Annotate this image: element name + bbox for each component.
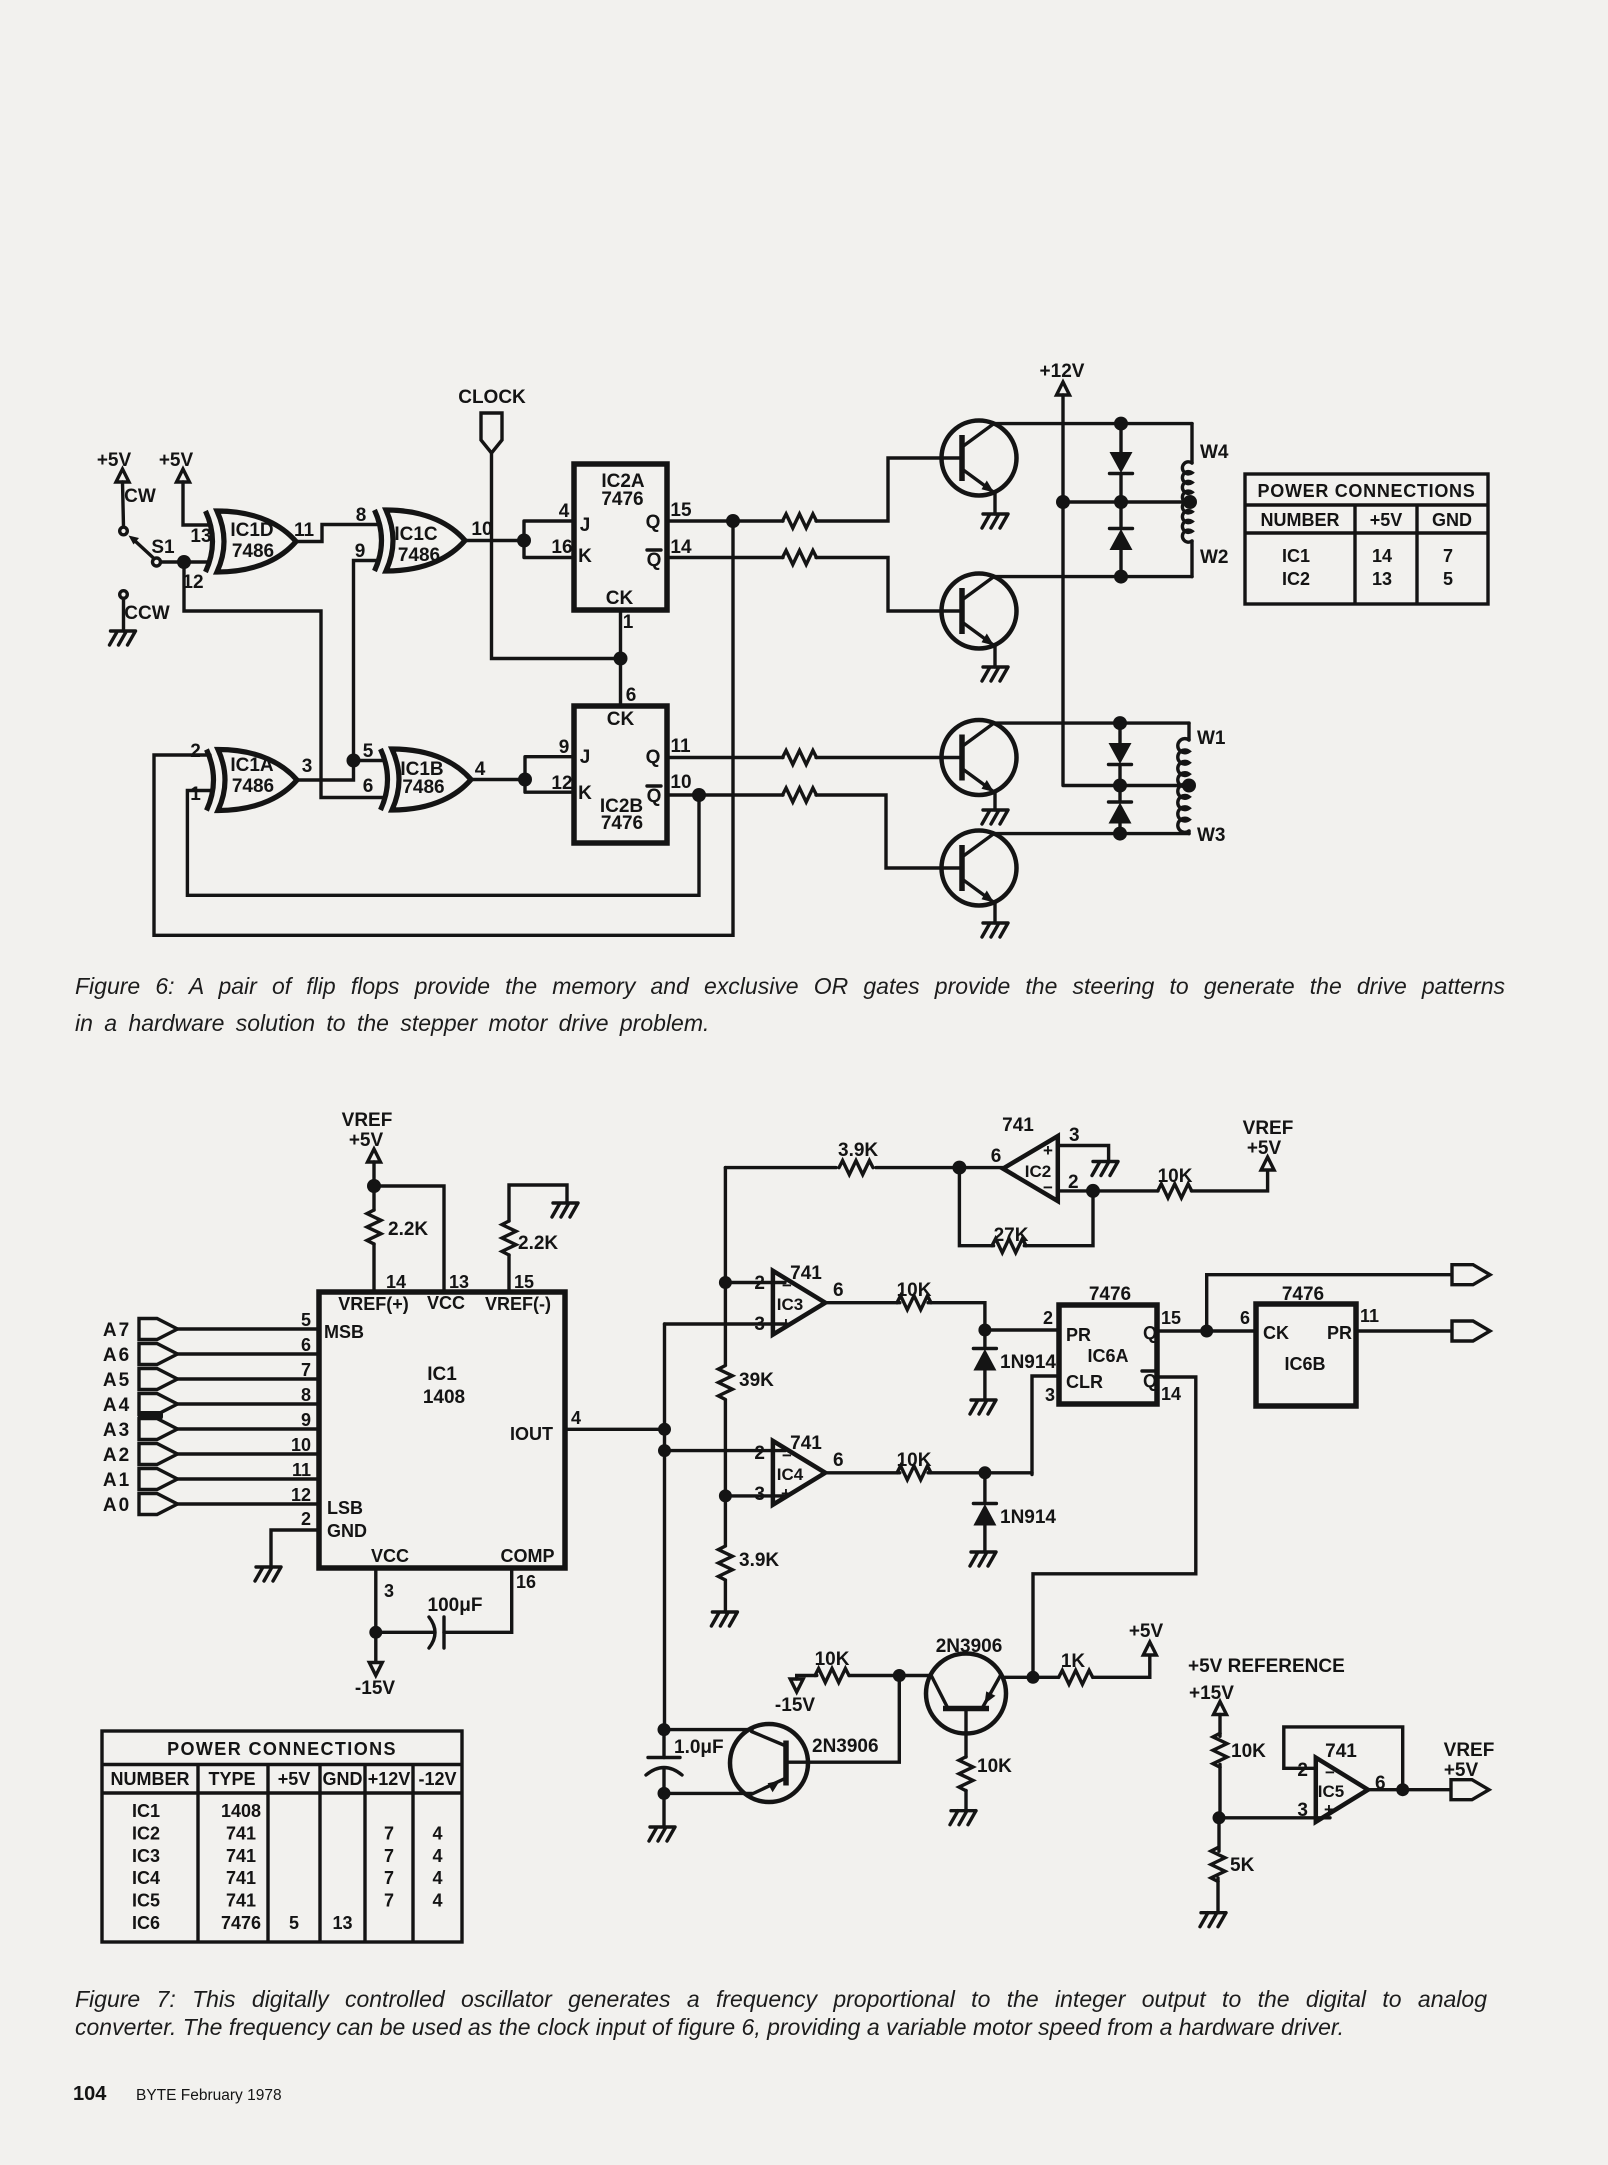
ground Q4 emitter	[982, 903, 1008, 938]
pin label 14	[386, 1272, 406, 1292]
svg-text:IC2: IC2	[132, 1823, 160, 1843]
svg-text:10K: 10K	[977, 1756, 1012, 1777]
svg-text:IC5: IC5	[132, 1891, 160, 1911]
svg-text:1: 1	[190, 784, 201, 805]
pin label 9	[355, 541, 366, 562]
svg-text:+5V: +5V	[349, 1130, 384, 1151]
svg-text:−: −	[782, 1446, 792, 1465]
pin label 6	[301, 1335, 311, 1355]
power -15V arrow	[355, 1638, 395, 1699]
svg-text:CLR: CLR	[1066, 1372, 1103, 1392]
node S1 common junction	[177, 555, 191, 569]
svg-text:PR: PR	[1327, 1323, 1352, 1343]
wire IC5 feedback loop	[1284, 1727, 1403, 1790]
svg-text:1408: 1408	[423, 1387, 465, 1408]
svg-text:+5V: +5V	[278, 1769, 311, 1789]
svg-text:15: 15	[1161, 1308, 1181, 1328]
wire IOUT pin 4	[565, 1423, 671, 1436]
svg-text:2N3906: 2N3906	[812, 1736, 879, 1757]
svg-text:5: 5	[289, 1913, 299, 1933]
svg-text:2.2K: 2.2K	[518, 1233, 558, 1254]
svg-text:2: 2	[1297, 1760, 1308, 1781]
svg-text:MSB: MSB	[324, 1322, 364, 1342]
connector A0	[103, 1494, 178, 1517]
winding W2	[1182, 501, 1228, 577]
flip-flop IC6B 7476	[1256, 1284, 1356, 1406]
svg-text:15: 15	[514, 1272, 534, 1292]
node bias junction	[893, 1669, 906, 1682]
svg-text:6: 6	[626, 685, 637, 706]
label +5V REFERENCE	[1188, 1656, 1345, 1677]
svg-text:3: 3	[754, 1314, 765, 1335]
svg-text:1.0μF: 1.0μF	[674, 1737, 724, 1758]
pin label 2	[301, 1509, 311, 1529]
svg-text:+5V: +5V	[1129, 1621, 1164, 1642]
label CW	[124, 486, 156, 507]
svg-text:741: 741	[226, 1891, 256, 1911]
svg-text:+5V: +5V	[1247, 1138, 1282, 1159]
svg-text:CLOCK: CLOCK	[458, 387, 526, 408]
svg-text:VREF: VREF	[1444, 1740, 1495, 1761]
ground Q6 base resistor	[950, 1791, 976, 1825]
svg-text:3: 3	[384, 1581, 394, 1601]
svg-text:16: 16	[551, 537, 572, 558]
pin label 8	[356, 505, 367, 526]
svg-text:-15V: -15V	[355, 1678, 395, 1699]
flip-flop IC2A 7476	[574, 464, 667, 610]
connector A3	[103, 1419, 178, 1442]
svg-text:7: 7	[384, 1846, 394, 1866]
svg-text:VCC: VCC	[427, 1293, 465, 1313]
diode D3	[1109, 723, 1132, 785]
wire S1 common to IC1D pin 12	[161, 560, 210, 563]
xor gate IC1C 7486	[375, 510, 466, 571]
svg-text:14: 14	[1161, 1384, 1181, 1404]
pin label 7	[301, 1360, 311, 1380]
resistor base T3	[783, 751, 817, 765]
svg-text:2: 2	[190, 741, 201, 762]
pin label 15	[514, 1272, 534, 1292]
svg-text:IC4: IC4	[132, 1868, 160, 1888]
wire Q4 collector to W3	[994, 827, 1189, 841]
svg-text:+12V: +12V	[368, 1769, 411, 1789]
svg-text:7486: 7486	[398, 545, 440, 566]
wire +12V rail	[1056, 395, 1197, 793]
label VREF +5V output	[1444, 1740, 1495, 1781]
wire CLOCK to CK junction	[492, 453, 621, 659]
connector A4	[103, 1394, 178, 1417]
pin label 12	[291, 1485, 311, 1505]
flip-flop IC2B 7476	[574, 706, 667, 843]
svg-text:POWER CONNECTIONS: POWER CONNECTIONS	[167, 1739, 397, 1759]
op-amp IC5 741	[1297, 1741, 1385, 1822]
diode D2	[1110, 502, 1133, 577]
resistor base T1	[783, 514, 817, 528]
xor gate IC1D 7486	[206, 511, 297, 572]
svg-text:14: 14	[670, 537, 692, 558]
wire VCC pin 3 down	[369, 1568, 382, 1639]
svg-text:2: 2	[754, 1443, 765, 1464]
svg-text:A2: A2	[103, 1445, 131, 1466]
wire A3 to pin 9	[178, 1427, 320, 1430]
ground DAC pin 2	[255, 1567, 281, 1581]
pin label 14	[670, 537, 692, 558]
wire 10K to VREF +5V arrow	[1191, 1157, 1274, 1191]
svg-text:2N3906: 2N3906	[936, 1636, 1003, 1657]
pin label 12	[182, 572, 203, 593]
winding W1	[1178, 723, 1226, 787]
diode 1N914 lower	[973, 1473, 1056, 1552]
pin label 4	[559, 501, 570, 522]
transistor Q3	[942, 720, 1017, 795]
svg-text:2: 2	[301, 1509, 311, 1529]
svg-text:A5: A5	[103, 1370, 131, 1391]
wire IC2 pin 3 to ground	[1058, 1146, 1109, 1162]
svg-text:CCW: CCW	[124, 603, 169, 624]
svg-text:7: 7	[384, 1823, 394, 1843]
connector A7	[103, 1319, 178, 1342]
resistor 39K	[718, 1283, 774, 1400]
svg-text:13: 13	[1372, 569, 1392, 589]
svg-text:IC1: IC1	[132, 1801, 160, 1821]
svg-text:GND: GND	[1432, 510, 1472, 530]
ground VREF(-)	[552, 1203, 578, 1217]
wire IC5 output	[1368, 1783, 1451, 1796]
wire divider to IC5 plus	[1219, 1816, 1330, 1819]
svg-text:3: 3	[1045, 1385, 1055, 1405]
ground 3.9K	[711, 1581, 737, 1627]
pin label 3	[302, 756, 313, 777]
pin label 6	[1240, 1308, 1250, 1328]
svg-text:Q: Q	[646, 512, 661, 533]
svg-text:39K: 39K	[739, 1370, 774, 1391]
ground capacitor	[649, 1793, 675, 1841]
svg-text:IC2: IC2	[1282, 569, 1310, 589]
wire reference divider	[1213, 1764, 1226, 1824]
svg-text:4: 4	[559, 501, 570, 522]
resistor 10K to VREF	[1158, 1166, 1193, 1198]
transistor Q2	[942, 574, 1017, 649]
svg-text:10: 10	[471, 519, 492, 540]
wire IC2A CK to IC2B CK	[614, 610, 628, 706]
svg-text:14: 14	[386, 1272, 406, 1292]
svg-text:CW: CW	[124, 486, 156, 507]
pin label 11	[1360, 1306, 1379, 1326]
connector A5	[103, 1369, 178, 1392]
wire +5V to IC1D pin 13	[183, 482, 209, 525]
svg-text:741: 741	[790, 1433, 822, 1454]
connector output upper	[1452, 1265, 1490, 1285]
transistor Q6 2N3906 current source	[926, 1636, 1006, 1734]
wire 1K to +5V arrow	[1093, 1642, 1157, 1677]
svg-text:Q: Q	[1143, 1371, 1157, 1391]
op-amp IC3 741	[754, 1263, 843, 1335]
svg-text:7: 7	[384, 1891, 394, 1911]
svg-text:3: 3	[1069, 1125, 1080, 1146]
svg-text:1N914: 1N914	[1000, 1352, 1056, 1373]
svg-text:LSB: LSB	[327, 1498, 363, 1518]
svg-text:A1: A1	[103, 1470, 131, 1491]
pin label 15	[670, 500, 692, 521]
svg-text:VREF: VREF	[342, 1110, 393, 1131]
svg-text:741: 741	[1002, 1115, 1034, 1136]
svg-text:3.9K: 3.9K	[739, 1550, 779, 1571]
svg-text:IC6: IC6	[132, 1913, 160, 1933]
caption figure 7	[75, 1986, 1487, 2013]
svg-text:10K: 10K	[1158, 1166, 1193, 1187]
svg-text:4: 4	[475, 759, 486, 780]
pin label 12	[551, 773, 572, 794]
page footer	[73, 2083, 106, 2106]
svg-text:8: 8	[356, 505, 367, 526]
svg-text:+15V: +15V	[1189, 1683, 1234, 1704]
svg-text:Q: Q	[647, 786, 662, 807]
svg-text:CK: CK	[606, 588, 634, 609]
power +5V supply arrow (left)	[97, 450, 132, 527]
svg-text:A3: A3	[103, 1420, 131, 1441]
svg-text:6: 6	[1240, 1308, 1250, 1328]
svg-text:CK: CK	[1263, 1323, 1289, 1343]
wire VREF node to VCC pin 13	[374, 1186, 444, 1292]
pin label 11	[294, 520, 315, 541]
wire A2 to pin 10	[178, 1452, 320, 1455]
wire IC1C pin 9 from IC1A output node	[354, 561, 379, 761]
svg-text:12: 12	[291, 1485, 311, 1505]
svg-text:11: 11	[292, 1460, 311, 1480]
svg-text:6: 6	[833, 1450, 844, 1471]
wire A6 to pin 6	[178, 1352, 320, 1355]
wire IC6B PR output	[1356, 1329, 1452, 1332]
connector CLOCK	[458, 387, 526, 453]
svg-text:3: 3	[302, 756, 313, 777]
wire 39K to IC4 plus	[719, 1400, 732, 1502]
svg-text:PR: PR	[1066, 1325, 1091, 1345]
svg-text:15: 15	[670, 500, 692, 521]
transistor Q4	[942, 831, 1017, 906]
svg-text:7: 7	[1443, 546, 1453, 566]
connector VREF output	[1451, 1780, 1489, 1800]
svg-text:741: 741	[226, 1846, 256, 1866]
pin label 3	[384, 1581, 394, 1601]
svg-text:3: 3	[1297, 1800, 1308, 1821]
ground 5K	[1200, 1878, 1226, 1927]
svg-text:IC5: IC5	[1318, 1782, 1344, 1801]
resistor 10K bias	[815, 1649, 850, 1683]
ground 1N914 upper	[970, 1400, 996, 1414]
flip-flop IC6A 7476	[1059, 1284, 1157, 1404]
xor gate IC1B 7486	[381, 749, 472, 810]
svg-text:+: +	[1324, 1800, 1334, 1819]
svg-text:3: 3	[754, 1484, 765, 1505]
pin label 10	[291, 1435, 311, 1455]
transistor Q5 2N3906 discharge	[730, 1724, 879, 1802]
svg-text:+5V: +5V	[159, 450, 194, 471]
wire IC2A Qbar pin 14 to resistor	[667, 558, 962, 612]
svg-text:6: 6	[363, 776, 374, 797]
svg-text:IC1C: IC1C	[394, 524, 438, 545]
resistor 1K	[1059, 1651, 1093, 1684]
resistor 10K IC3 out	[897, 1280, 932, 1310]
svg-text:7476: 7476	[221, 1913, 261, 1933]
wire Q6 emitter to 1K	[1004, 1671, 1059, 1684]
svg-text:4: 4	[432, 1846, 442, 1866]
svg-text:741: 741	[1325, 1741, 1357, 1762]
svg-text:NUMBER: NUMBER	[111, 1769, 190, 1789]
diode D4	[1109, 786, 1132, 834]
svg-text:+5V: +5V	[97, 450, 132, 471]
wire top node down to IC3 minus	[719, 1168, 732, 1289]
svg-text:5: 5	[1443, 569, 1453, 589]
svg-text:IC6A: IC6A	[1087, 1346, 1128, 1366]
ground IC2 pin 3	[1092, 1162, 1118, 1176]
svg-text:1K: 1K	[1061, 1651, 1086, 1672]
svg-text:W3: W3	[1197, 825, 1226, 846]
pin label 5	[363, 741, 374, 762]
svg-text:1408: 1408	[221, 1801, 261, 1821]
power +12V arrow	[1040, 361, 1085, 395]
wire IC1D pin 11 to IC1C pin 8	[296, 525, 378, 542]
resistor base T4	[783, 788, 817, 802]
svg-text:GND: GND	[327, 1521, 367, 1541]
wire A5 to pin 7	[178, 1377, 320, 1380]
power VREF +5V arrow (top)	[342, 1110, 393, 1186]
pin label 16	[551, 537, 572, 558]
svg-text:IOUT: IOUT	[510, 1424, 553, 1444]
svg-text:TYPE: TYPE	[208, 1769, 255, 1789]
wire Q5 collector to cap top	[664, 1728, 752, 1731]
wire A1 to pin 11	[178, 1477, 320, 1480]
wire IC1C pin 10 to IC2A J K	[465, 521, 574, 558]
pin label 13	[190, 526, 211, 547]
svg-text:1N914: 1N914	[1000, 1507, 1056, 1528]
svg-text:14: 14	[1372, 546, 1392, 566]
wire IOUT node vertical	[658, 1324, 671, 1730]
svg-text:4: 4	[432, 1823, 442, 1843]
wire S1 common down to IC1B pin 6	[184, 562, 384, 798]
power label VREF +5V right	[1243, 1118, 1294, 1159]
resistor 10K IC4 out	[897, 1450, 932, 1480]
caption figure 6	[75, 973, 1505, 1000]
svg-text:9: 9	[559, 737, 570, 758]
wire IC1B pin 4 to IC2B J K	[471, 757, 574, 793]
wire IC3 output to PR	[825, 1303, 1059, 1337]
pin label 4	[475, 759, 486, 780]
connector A6	[103, 1344, 178, 1367]
connector A2	[103, 1444, 178, 1467]
wire IC2B Qbar pin 10 to T4 base	[667, 795, 962, 868]
wire A4 to pin 8	[178, 1402, 320, 1405]
winding W4	[1182, 424, 1229, 504]
svg-text:8: 8	[301, 1385, 311, 1405]
svg-text:11: 11	[1360, 1306, 1379, 1326]
svg-text:VREF: VREF	[1243, 1118, 1294, 1139]
svg-text:CK: CK	[607, 709, 635, 730]
svg-text:+5V: +5V	[1370, 510, 1403, 530]
svg-text:IC6B: IC6B	[1284, 1354, 1325, 1374]
svg-text:S1: S1	[151, 537, 175, 558]
svg-text:A6: A6	[103, 1345, 131, 1366]
svg-text:2.2K: 2.2K	[388, 1219, 428, 1240]
svg-text:+: +	[781, 1314, 791, 1333]
resistor 10K Q6 base	[959, 1734, 1012, 1791]
power +15V arrow	[1189, 1683, 1234, 1715]
svg-text:13: 13	[190, 526, 211, 547]
pin label 10	[670, 772, 691, 793]
svg-text:VREF(+): VREF(+)	[338, 1294, 409, 1314]
capacitor 1.0uF	[646, 1730, 724, 1794]
svg-text:2: 2	[1043, 1308, 1053, 1328]
ground below CCW	[110, 599, 136, 646]
svg-text:K: K	[578, 546, 592, 567]
wire IC6A CLR from IC4 output	[1032, 1376, 1059, 1475]
pin label 5	[301, 1310, 311, 1330]
node capacitor top	[658, 1723, 671, 1736]
wire IC6A Qbar clamp path	[1033, 1377, 1196, 1677]
svg-text:7486: 7486	[402, 777, 444, 798]
wire IC1A pin 2 feedback from IC2A Q	[154, 521, 733, 935]
wire 10K to bias node	[849, 1674, 899, 1677]
wire IOUT to IC3 plus input	[665, 1322, 786, 1325]
wire 27K feedback	[959, 1168, 1093, 1246]
node VREF junction	[367, 1179, 381, 1193]
resistor 2.2K right	[502, 1185, 567, 1292]
svg-text:10: 10	[670, 772, 691, 793]
node capacitor bottom	[658, 1787, 671, 1800]
svg-text:1: 1	[623, 612, 634, 633]
pin label 6	[626, 685, 637, 706]
pin label 1	[190, 784, 201, 805]
svg-text:J: J	[580, 747, 591, 768]
pin label 6	[363, 776, 374, 797]
svg-text:6: 6	[301, 1335, 311, 1355]
svg-text:11: 11	[670, 736, 691, 757]
resistor 27K	[992, 1225, 1029, 1253]
svg-text:13: 13	[449, 1272, 469, 1292]
wire Q5 emitter to cap bottom	[664, 1792, 752, 1795]
svg-text:6: 6	[991, 1146, 1002, 1167]
diode D1	[1110, 424, 1133, 502]
pin label 16	[516, 1572, 536, 1592]
svg-text:10K: 10K	[1231, 1741, 1266, 1762]
wire Q6 collector to bias node	[899, 1674, 930, 1677]
svg-text:A4: A4	[103, 1395, 131, 1416]
pin label 8	[301, 1385, 311, 1405]
svg-text:13: 13	[332, 1913, 352, 1933]
svg-text:IC3: IC3	[132, 1846, 160, 1866]
svg-text:NUMBER: NUMBER	[1261, 510, 1340, 530]
wire IC1A pin 3 to IC1B pin 5	[297, 754, 384, 781]
svg-text:5K: 5K	[1230, 1855, 1255, 1876]
svg-text:7: 7	[384, 1868, 394, 1888]
pin label 11	[670, 736, 691, 757]
svg-text:6: 6	[833, 1280, 844, 1301]
pin label 4	[571, 1408, 581, 1428]
switch contact CCW	[120, 591, 170, 624]
ground Q1 emitter	[982, 493, 1008, 529]
svg-text:741: 741	[226, 1868, 256, 1888]
svg-text:4: 4	[432, 1891, 442, 1911]
wire top node from 3.9K to IC2 output	[725, 1161, 1003, 1175]
resistor 10K reference	[1213, 1715, 1266, 1768]
wire IC1A pin 1 feedback from IC2B Qbar	[187, 788, 706, 895]
connector output lower	[1452, 1321, 1490, 1341]
svg-text:+12V: +12V	[1040, 361, 1085, 382]
svg-text:5: 5	[301, 1310, 311, 1330]
svg-text:IC1: IC1	[1282, 546, 1310, 566]
wire Q3 collector to W1	[994, 716, 1189, 730]
svg-text:27K: 27K	[994, 1225, 1029, 1246]
pin label 1	[623, 612, 634, 633]
